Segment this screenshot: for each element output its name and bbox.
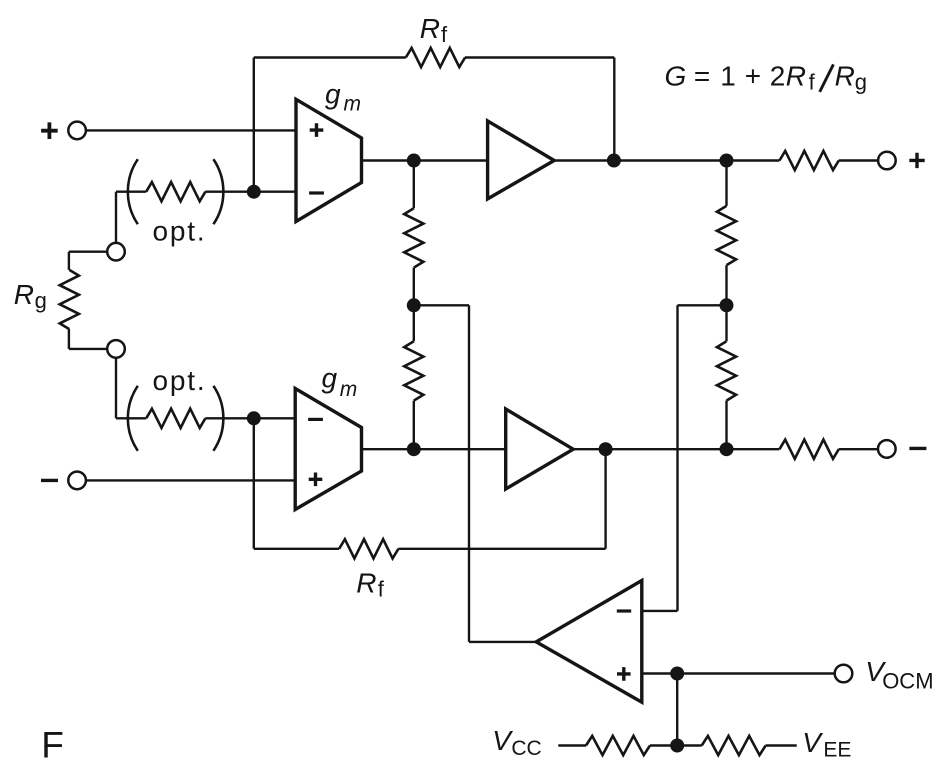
svg-text:opt.: opt. xyxy=(153,216,207,247)
svg-text:1: 1 xyxy=(720,61,736,92)
svg-text:V: V xyxy=(492,725,513,756)
svg-text:R: R xyxy=(356,568,376,599)
svg-text:R: R xyxy=(14,279,34,310)
svg-text:EE: EE xyxy=(823,739,851,762)
svg-text:f: f xyxy=(378,576,385,601)
svg-text:R: R xyxy=(835,61,855,92)
svg-text:g: g xyxy=(325,78,341,109)
svg-text:m: m xyxy=(344,93,362,116)
svg-text:G: G xyxy=(665,61,687,92)
svg-text:=: = xyxy=(694,61,710,92)
svg-text:opt.: opt. xyxy=(153,365,207,396)
svg-text:V: V xyxy=(802,727,823,758)
svg-text:R: R xyxy=(786,61,806,92)
svg-text:OCM: OCM xyxy=(882,669,933,694)
svg-text:g: g xyxy=(855,69,867,94)
svg-text:m: m xyxy=(340,378,358,401)
svg-text:f: f xyxy=(809,69,816,94)
svg-text:R: R xyxy=(420,13,440,44)
svg-text:g: g xyxy=(35,288,47,313)
svg-text:F: F xyxy=(41,725,64,766)
svg-text:CC: CC xyxy=(511,737,541,760)
svg-text:+: + xyxy=(745,61,761,92)
svg-text:g: g xyxy=(322,363,338,394)
svg-text:2: 2 xyxy=(770,61,786,92)
svg-text:f: f xyxy=(441,22,448,47)
